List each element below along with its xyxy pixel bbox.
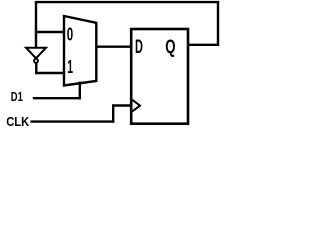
- mux (2-to-1 multiplexer): [64, 16, 96, 86]
- svg-text:0: 0: [67, 23, 73, 44]
- wire: feedback right vertical: [217, 1, 219, 46]
- wire: D1 horizontal: [33, 97, 81, 99]
- wire: inverter output vertical: [35, 63, 37, 74]
- svg-text:CLK: CLK: [6, 114, 29, 129]
- wire: Q output to feedback corner: [188, 44, 219, 46]
- wire: mux output to D input: [96, 46, 133, 48]
- wire: CLK horizontal: [31, 120, 115, 122]
- wire: inverter output to mux input 1: [35, 72, 65, 74]
- svg-text:1: 1: [67, 56, 73, 77]
- svg-text:Q: Q: [165, 36, 175, 58]
- wire: feedback left vertical to inverter input: [35, 1, 37, 49]
- wire: clock top segment into wedge: [112, 104, 132, 106]
- wire: mux select stub: [79, 82, 81, 100]
- wire: feedback top horizontal: [35, 1, 219, 3]
- inverter: [26, 48, 46, 59]
- svg-text:D: D: [135, 36, 143, 58]
- flip-flop clock wedge: [132, 100, 140, 111]
- wire: junction to mux input 0: [35, 31, 65, 33]
- D flip-flop U1: [131, 29, 188, 124]
- wire: clock riser: [112, 104, 114, 122]
- svg-text:D1: D1: [11, 90, 23, 104]
- inverter bubble: [34, 59, 38, 63]
